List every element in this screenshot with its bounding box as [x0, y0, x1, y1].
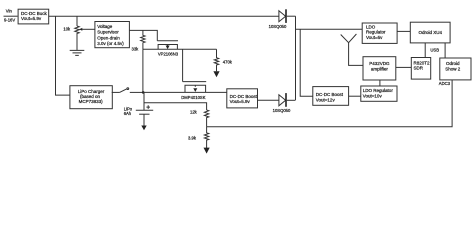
DC-DC Buck converter U1: [18, 9, 49, 24]
svg-text:Vout=5.9v: Vout=5.9v: [21, 16, 42, 21]
wire boost 12v to LDO 10v: [349, 95, 361, 97]
svg-text:Vout=5.9v: Vout=5.9v: [230, 99, 251, 104]
svg-text:3.9k: 3.9k: [188, 136, 197, 141]
transistor Q1 VP2106N3 P-MOSFET: [157, 41, 178, 57]
ground arrow (battery): [141, 126, 146, 131]
wire USB to SDR: [424, 43, 426, 58]
resistor R2 33k: [132, 30, 146, 51]
ground (pot): [70, 50, 85, 55]
svg-text:10k: 10k: [63, 27, 71, 32]
node Vin voltage label 9-16V: [4, 18, 15, 23]
svg-text:Open-drain: Open-drain: [97, 35, 120, 40]
LDO regulator 5v U5: [362, 23, 397, 43]
LDO regulator 10v U9: [361, 86, 397, 101]
wire OR bus to LDO 5v feed: [296, 28, 363, 30]
wire OR bus vertical: [295, 16, 297, 100]
wire VP drain to DMP gate: [182, 49, 184, 81]
svg-text:6Ah: 6Ah: [124, 111, 132, 116]
voltage supervisor U2: [95, 22, 129, 48]
svg-text:Vout=10v: Vout=10v: [363, 93, 383, 98]
wire drop to potentiometer: [76, 16, 78, 26]
resistor R4 12k: [190, 110, 209, 127]
battery BT1 LiPo 6Ah: [124, 92, 154, 126]
wire USB to Odroid Show 2: [444, 43, 446, 58]
wire diode D2 cathode to OR bus: [287, 99, 296, 101]
svg-text:470k: 470k: [223, 60, 233, 65]
wire amplifier power to LDO 10v: [379, 80, 381, 86]
node Vin label: [6, 8, 13, 13]
svg-text:amplifier: amplifier: [371, 66, 389, 71]
wire LDO 5v to Odroid XU4: [397, 30, 410, 32]
DC-DC boost 12v U8: [313, 87, 349, 106]
svg-text:SDR: SDR: [414, 66, 424, 71]
potentiometer R1 10k: [63, 26, 95, 50]
wire amplifier to SDR: [396, 66, 412, 68]
node battery junction: [142, 91, 145, 94]
wire feed to 12v boost: [300, 29, 313, 96]
wire charger output to switch: [112, 91, 120, 93]
wire 5.9V main rail: [49, 15, 279, 17]
amplifier U6 P432VDG: [363, 57, 396, 80]
wire divider tap to ADC3 (bottom rail): [207, 80, 453, 127]
svg-text:12k: 12k: [190, 110, 198, 115]
ground arrow (3.9k): [204, 148, 210, 154]
svg-text:Vout=5v: Vout=5v: [366, 35, 383, 40]
DC-DC boost 5.9v U4: [227, 89, 258, 108]
svg-text:Voltage: Voltage: [97, 24, 113, 29]
svg-text:DMP4010SK: DMP4010SK: [181, 95, 205, 100]
svg-text:Supervisor: Supervisor: [97, 30, 119, 35]
svg-text:10SQ050: 10SQ050: [269, 24, 287, 29]
wire diode D1 cathode to OR bus: [287, 15, 296, 17]
svg-text:VP2106N3: VP2106N3: [158, 51, 179, 56]
SDR receiver U7 R820T2: [411, 58, 430, 80]
ground arrow (470k): [213, 71, 219, 77]
svg-text:10SQ050: 10SQ050: [273, 108, 291, 113]
LiPo charger U3: [70, 86, 112, 109]
wire drop to LiPo charger: [56, 16, 70, 95]
wire battery sense to divider: [144, 103, 207, 110]
wire battery rail to DMP source and boost input: [143, 91, 227, 93]
wire boost output to diode D2: [258, 99, 279, 101]
Odroid Show 2 display: [440, 58, 471, 80]
switch SW1: [119, 88, 143, 93]
Odroid XU4 computer: [410, 22, 450, 43]
svg-text:Vin: Vin: [6, 8, 13, 13]
wire supervisor output to VP2106N3 gate: [129, 30, 157, 40]
resistor R3 470k: [214, 49, 232, 71]
svg-text:Show 2: Show 2: [445, 66, 461, 71]
wire battery feed vertical: [142, 49, 144, 92]
svg-text:33k: 33k: [132, 46, 140, 51]
svg-text:USB: USB: [430, 47, 439, 52]
node USB label: [430, 47, 439, 52]
wire Vin input stub: [4, 15, 18, 17]
svg-text:ADC3: ADC3: [439, 81, 451, 86]
resistor R5 3.9k: [188, 127, 209, 149]
transistor Q2 DMP4010SK P-MOSFET: [181, 82, 206, 100]
node ADC3 label: [439, 81, 451, 86]
svg-text:3.0v (or 4.5v): 3.0v (or 4.5v): [97, 41, 124, 46]
diode D2 10SQ050 (battery rail): [273, 93, 291, 113]
svg-text:9-16V: 9-16V: [4, 18, 15, 23]
diode D1 10SQ050 (main rail): [269, 9, 287, 29]
antenna ANT1: [341, 34, 363, 65]
svg-text:Odroid XU4: Odroid XU4: [418, 30, 442, 35]
svg-text:MCP73833): MCP73833): [79, 99, 104, 104]
wire source-drain rail of VP2106N3: [143, 48, 217, 50]
svg-text:Vout=12v: Vout=12v: [316, 97, 336, 102]
